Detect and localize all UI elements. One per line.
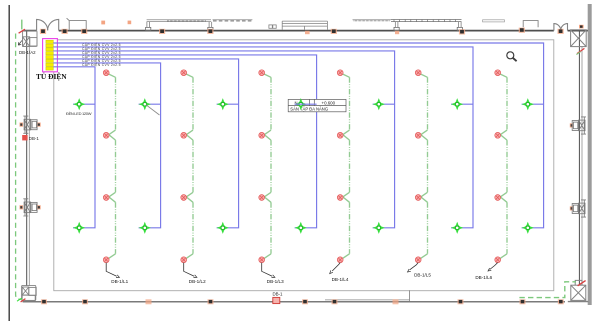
column top C4 <box>159 29 165 34</box>
wire lamp branch row1 col6 <box>451 103 473 105</box>
lamp LED row2-4 <box>295 222 307 234</box>
column top C1 <box>40 29 46 34</box>
callout DB-1/L3 <box>262 263 284 285</box>
lamp LED row2-5 <box>373 222 385 234</box>
fixture R3-4 <box>259 257 265 263</box>
wire bottom partition <box>409 290 411 302</box>
wire lamp branch over table <box>295 103 317 105</box>
column bottom C3 <box>146 299 152 304</box>
node orange marker C <box>305 31 310 34</box>
lamp LED row1-5 <box>373 98 385 110</box>
callout DB-1/L1 <box>106 263 128 285</box>
panel DB-1 bottom marker <box>273 297 280 303</box>
panel TU DIEN cabinet <box>43 39 58 72</box>
fixture R6-3 <box>495 195 501 201</box>
svg-text:+0.600: +0.600 <box>322 101 336 106</box>
fixture R5-3 <box>415 195 421 201</box>
panel DB-1 left marker <box>22 135 27 140</box>
callout DB-1/L5 <box>408 263 432 278</box>
wire lamp branch row1 col7 <box>522 103 544 105</box>
fixture R5-4 <box>415 257 421 263</box>
wire lamp branch row1 col1 <box>73 103 95 105</box>
node dim strip top right <box>483 20 505 22</box>
svg-text:SÀN TẬP ĐA NĂNG: SÀN TẬP ĐA NĂNG <box>290 107 328 112</box>
node canopy top-right <box>523 21 538 28</box>
lamp LED row1-3 <box>217 98 229 110</box>
panel TU DIEN breaker cells <box>46 40 53 70</box>
lamp LED row1-1 <box>73 98 85 110</box>
lamp LED row1-2 <box>139 98 151 110</box>
fixture R2-4 <box>181 257 187 263</box>
column top C7 <box>459 29 465 34</box>
wire bottom wall <box>23 301 565 303</box>
node red-green tick top-right <box>577 48 584 53</box>
door top-right double leaf <box>554 24 568 31</box>
wire green dashed left <box>16 34 23 300</box>
column right wall mid2 <box>570 200 586 217</box>
fixture R2-3 <box>181 195 187 201</box>
node twin squares top wall <box>269 25 276 28</box>
fixture R4-4 <box>337 257 343 263</box>
node orange marker A <box>101 21 105 25</box>
svg-text:ĐÈN LED 120W: ĐÈN LED 120W <box>66 111 92 116</box>
callout DB-1/L4 <box>330 263 349 283</box>
node orange marker E <box>579 25 584 29</box>
wire cable CVV-3 and riser 3 <box>53 51 394 228</box>
lamp LED row2-3 <box>217 222 229 234</box>
node truss B top wall <box>353 20 463 31</box>
lamp LED row2-2 <box>139 222 151 234</box>
wire right thick bar <box>588 4 592 305</box>
svg-text:DB-1: DB-1 <box>273 292 284 297</box>
wire cable CVV-4 and riser 4 <box>53 55 316 228</box>
svg-text:DB-1/A2: DB-1/A2 <box>19 50 36 55</box>
column top-left corner box <box>23 31 37 47</box>
column bottom C4 <box>208 299 214 304</box>
fixture R1-3 <box>103 195 109 201</box>
wire leader at lamp row1 col2 <box>146 105 160 115</box>
column top-right stair box <box>571 30 587 47</box>
lamp LED row1-6 <box>451 98 463 110</box>
lamp LED row2-1 <box>73 222 85 234</box>
fixture R6-1 <box>495 70 501 76</box>
svg-text:DB-1/L6: DB-1/L6 <box>475 275 492 280</box>
node level table <box>288 99 346 111</box>
wire fixture line 1 <box>108 74 115 259</box>
fixture R3-2 <box>259 132 265 138</box>
wire cable CVV-6 and riser 6 <box>53 63 160 228</box>
label cable texts <box>82 42 121 67</box>
lamp LED row1-4-top <box>295 98 307 110</box>
fixture R6-4 <box>495 257 501 263</box>
column top C9 <box>558 29 564 34</box>
column bottom C1 <box>41 299 47 304</box>
lamp LED row1-4 <box>295 98 307 110</box>
wire cable CVV-2 and riser 2 <box>53 47 473 228</box>
wire lamp branch row1 col2 <box>139 103 161 105</box>
fixture R1-2 <box>103 132 109 138</box>
column bottom C9 <box>520 299 526 304</box>
wire green dashed bottom-right <box>519 282 576 298</box>
wire green solid top-left <box>21 20 23 30</box>
column top C8 <box>519 28 525 33</box>
node DB-1/A2 leader arrow <box>18 41 21 46</box>
door top-left double leaf <box>37 19 59 30</box>
fixture R5-2 <box>415 132 421 138</box>
callout DB-1/L2 <box>184 263 206 285</box>
svg-text:DB-1/L5: DB-1/L5 <box>414 272 431 277</box>
wire lamp branch row1 col3 <box>217 103 239 105</box>
node truss A top wall <box>146 20 253 31</box>
node bleacher rows top wall <box>282 21 327 30</box>
node red tick top-left <box>19 29 25 33</box>
fixture R5-1 <box>415 70 421 76</box>
column top C2 <box>62 29 68 34</box>
column left wall mid1 <box>20 116 41 133</box>
column bottom C8 <box>458 299 464 304</box>
fixture R3-3 <box>259 195 265 201</box>
svg-text:DB-1/L3: DB-1/L3 <box>267 279 284 284</box>
node red tick bottom-right <box>578 281 586 286</box>
column top C6 <box>331 29 337 34</box>
callout DB-1/L6 <box>475 263 497 280</box>
lamp LED row2-6 <box>451 222 463 234</box>
fixture R2-1 <box>181 70 187 76</box>
node orange marker B <box>128 21 132 25</box>
wire fixture line 3 <box>264 74 271 259</box>
column left wall mid2 <box>20 199 41 216</box>
svg-text:DB-1/L2: DB-1/L2 <box>189 279 206 284</box>
wire fixture line 2 <box>186 74 193 259</box>
fixture R1-4 <box>103 257 109 263</box>
wire fixture line 5 <box>420 74 427 259</box>
wire lamp branch row1 col5 <box>373 103 395 105</box>
column bottom C5 <box>302 299 308 304</box>
node magnifier icon <box>507 52 517 61</box>
svg-text:TỦ ĐIỆN: TỦ ĐIỆN <box>36 71 67 81</box>
column right wall mid1 <box>570 117 586 134</box>
column top C3 <box>81 29 87 34</box>
fixture R2-2 <box>181 132 187 138</box>
wire lamp branch row1 col4 <box>295 103 317 105</box>
wire left reference line <box>8 5 10 321</box>
wire fixture line 4 <box>342 74 349 259</box>
svg-text:DB-1: DB-1 <box>29 136 40 141</box>
column bottom-right box <box>568 280 589 301</box>
column bottom C10 <box>558 299 564 304</box>
fixture R1-1 <box>103 70 109 76</box>
wire cable CVV-7 and riser 7 <box>53 67 95 228</box>
node red tick bottom-left <box>21 299 26 302</box>
fixture R4-1 <box>337 70 343 76</box>
lamp LED row1-7 <box>522 98 534 110</box>
lamp LED row2-7 <box>522 222 534 234</box>
column top C5 <box>207 29 213 34</box>
svg-text:DB-1/L4: DB-1/L4 <box>332 277 349 282</box>
wire top wall <box>23 30 591 32</box>
node room inner border <box>54 40 554 291</box>
node orange marker D <box>395 31 399 34</box>
column bottom-left corner box <box>22 285 37 300</box>
node canopy top-left <box>67 18 87 30</box>
svg-text:DB-1/L1: DB-1/L1 <box>111 279 128 284</box>
fixture R4-3 <box>337 195 343 201</box>
column bottom C6 <box>332 299 338 304</box>
wire fixture line 6 <box>500 74 507 259</box>
column bottom C7 <box>393 299 399 304</box>
fixture R4-2 <box>337 132 343 138</box>
column bottom C2 <box>82 299 88 304</box>
wire left wall <box>26 31 28 286</box>
fixture R3-1 <box>259 70 265 76</box>
wire right wall <box>578 31 580 285</box>
wire cable CVV-5 and riser 5 <box>53 59 238 228</box>
svg-text:CẤP ĐIỆN CVV 2x2.5: CẤP ĐIỆN CVV 2x2.5 <box>82 62 121 67</box>
wire cable CVV-1 and riser 1 <box>53 43 543 228</box>
fixture R6-2 <box>495 132 501 138</box>
